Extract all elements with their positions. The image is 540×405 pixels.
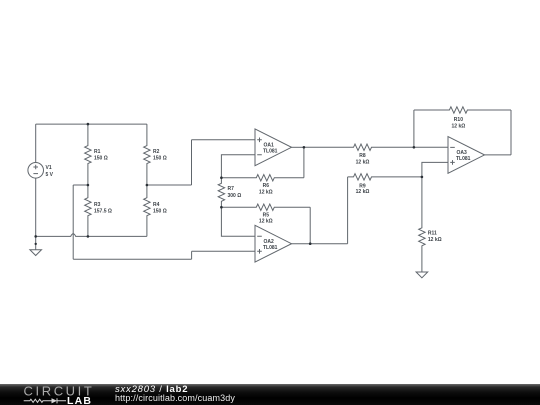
node B : R2/R4 junction bbox=[146, 184, 149, 187]
svg-text:R3: R3 bbox=[94, 202, 101, 208]
junction R7 bottom / R5 / OA2 - bbox=[220, 206, 223, 209]
svg-text:12 kΩ: 12 kΩ bbox=[452, 123, 466, 129]
svg-text:TL081: TL081 bbox=[456, 156, 471, 162]
svg-text:V1: V1 bbox=[46, 165, 52, 171]
wire node B to riser bbox=[147, 184, 192, 186]
resistor R5 bbox=[221, 204, 310, 210]
svg-text:R8: R8 bbox=[359, 153, 366, 159]
footer bar bbox=[0, 384, 540, 405]
junction top rail / R1 bbox=[87, 123, 90, 126]
wire long bottom run bbox=[73, 258, 191, 260]
svg-text:150 Ω: 150 Ω bbox=[153, 156, 167, 162]
resistor R8 bbox=[304, 144, 414, 150]
wire top rail bbox=[36, 123, 147, 125]
wire into OA1 + input bbox=[192, 139, 256, 141]
footer line 1 : user / project bbox=[115, 385, 188, 395]
op-amp OA1 bbox=[255, 129, 292, 166]
wire OA1 output stub bbox=[292, 146, 304, 148]
svg-text:5 V: 5 V bbox=[46, 172, 54, 178]
junction OA2 output / R5 bbox=[309, 242, 312, 245]
svg-text:R11: R11 bbox=[428, 230, 437, 236]
wire V1 top to top rail bbox=[35, 124, 37, 162]
svg-text:150 Ω: 150 Ω bbox=[153, 209, 167, 215]
op-amp OA3 bbox=[448, 137, 485, 174]
resistor R7 bbox=[218, 178, 224, 208]
wire into OA2 + input bbox=[192, 250, 255, 252]
wire R10 left riser down to - node bbox=[413, 110, 415, 147]
svg-text:LAB: LAB bbox=[67, 395, 92, 405]
junction R7 top / R6 / OA1 - bbox=[220, 176, 223, 179]
resistor R9 bbox=[348, 174, 422, 180]
svg-text:157.5 Ω: 157.5 Ω bbox=[94, 209, 112, 215]
wire OA3 output riser to R10 bbox=[510, 110, 512, 155]
svg-text:TL081: TL081 bbox=[263, 148, 278, 154]
svg-text:150 Ω: 150 Ω bbox=[94, 156, 108, 162]
svg-text:12 kΩ: 12 kΩ bbox=[356, 159, 370, 165]
resistor R10 bbox=[414, 107, 511, 113]
svg-text:R10: R10 bbox=[454, 117, 463, 123]
footer line 2 : url bbox=[115, 394, 235, 403]
voltage source V1 bbox=[28, 163, 44, 179]
junction OA1 output / R6 / R8 bbox=[303, 146, 306, 149]
svg-text:R6: R6 bbox=[263, 183, 270, 189]
wire OA1 - input bbox=[221, 155, 255, 178]
wire OA3 + input riser bbox=[422, 162, 448, 177]
wire OA2 - input bbox=[221, 207, 255, 236]
svg-text:R7: R7 bbox=[228, 186, 235, 192]
wire bottom rail with hop over crossing wire bbox=[36, 234, 147, 237]
wire node A to left jog bbox=[73, 184, 88, 186]
wire V1 bottom to bottom rail bbox=[35, 178, 37, 236]
op-amp OA2 bbox=[255, 225, 292, 262]
svg-text:12 kΩ: 12 kΩ bbox=[356, 189, 370, 195]
svg-text:R2: R2 bbox=[153, 149, 160, 155]
wire OA3 - input from R8/R10 node bbox=[414, 146, 448, 148]
CircuitLab logo bbox=[0, 381, 100, 405]
svg-text:12 kΩ: 12 kΩ bbox=[259, 219, 273, 225]
ground GND1 bbox=[30, 236, 42, 255]
resistor R3 bbox=[85, 185, 91, 236]
junction R9 / OA3 + / R11 bbox=[421, 176, 424, 179]
svg-text:R4: R4 bbox=[153, 202, 160, 208]
wire OA2 output run bbox=[292, 243, 348, 245]
svg-text:300 Ω: 300 Ω bbox=[228, 193, 242, 199]
svg-text:TL081: TL081 bbox=[263, 245, 278, 251]
junction bottom rail / V1 / ground bbox=[34, 235, 37, 238]
svg-text:R1: R1 bbox=[94, 149, 101, 155]
wire riser OA2 output up to R9 bbox=[347, 177, 349, 244]
wire OA3 output bbox=[485, 154, 512, 156]
wire step up bbox=[191, 251, 193, 259]
resistor R1 bbox=[85, 124, 91, 185]
ground GND2 bbox=[416, 272, 428, 278]
junction bottom rail / R3 bbox=[87, 235, 90, 238]
svg-text:12 kΩ: 12 kΩ bbox=[259, 190, 273, 196]
wire left vertical down bbox=[72, 185, 74, 259]
resistor R6 bbox=[221, 175, 304, 181]
wire R5 right riser to OA2 output bbox=[309, 207, 311, 244]
wire R6 right riser to OA1 output bbox=[303, 147, 305, 177]
resistor R2 bbox=[144, 124, 150, 185]
svg-text:12 kΩ: 12 kΩ bbox=[428, 237, 442, 243]
node A : R1/R3 junction bbox=[87, 184, 90, 187]
svg-text:R5: R5 bbox=[263, 212, 270, 218]
resistor R11 bbox=[419, 177, 425, 272]
resistor R4 bbox=[144, 185, 150, 236]
wire riser to OA1 + level bbox=[191, 140, 193, 185]
junction R8 / R10 riser / OA3 - bbox=[413, 146, 416, 149]
